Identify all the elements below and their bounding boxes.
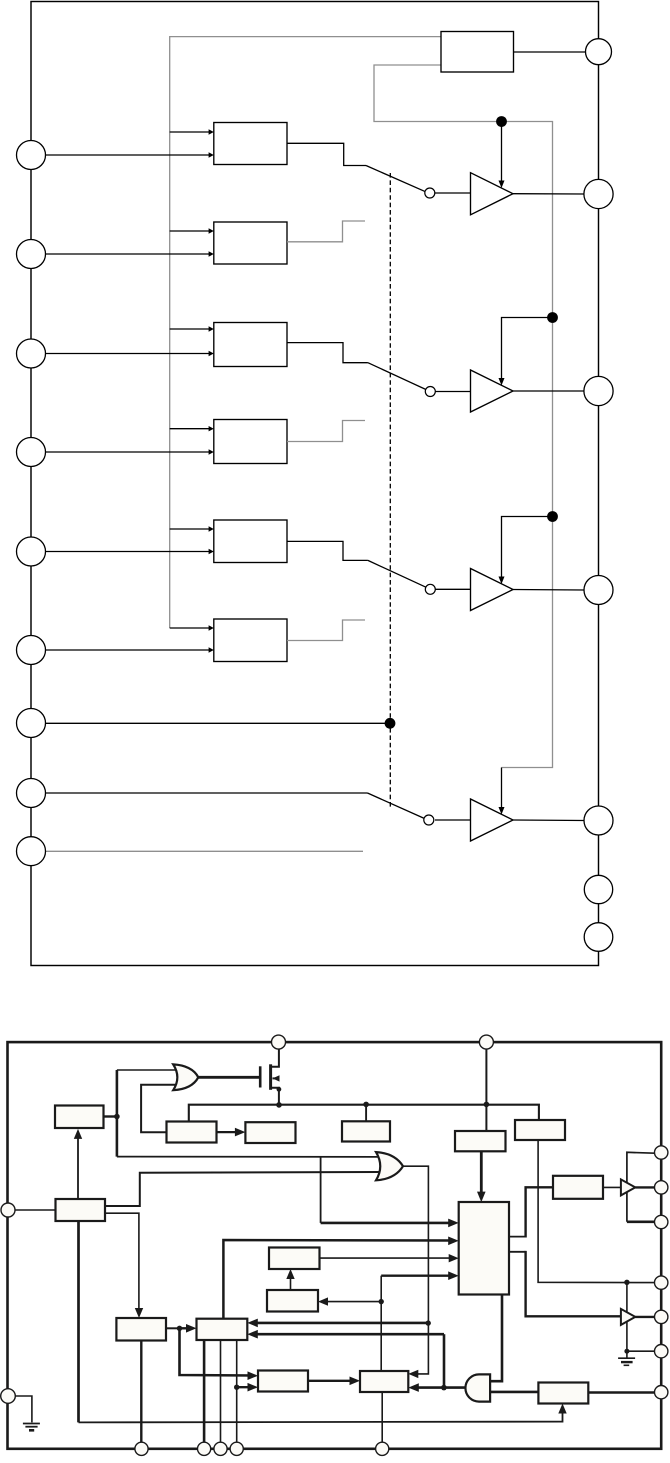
- wire bus arrow into U4: [170, 428, 210, 430]
- junction dot on mid bus at Q1: [276, 1102, 282, 1108]
- buffer T2: [621, 1309, 635, 1325]
- block J (bias): [56, 1199, 106, 1221]
- wire pivot to B1: [435, 192, 471, 194]
- block N: [258, 1371, 308, 1392]
- block F: [455, 1131, 506, 1151]
- wire VCC rail from pin to MOSFET drain: [270, 1049, 279, 1067]
- junction node on dashed line: [385, 718, 396, 729]
- wire box O bottom to pin: [381, 1392, 383, 1442]
- pin right5: [655, 1310, 668, 1323]
- block H: [553, 1176, 603, 1199]
- pin right1: [655, 1146, 668, 1159]
- junction dot at ground node: [624, 1349, 629, 1354]
- block E: [342, 1121, 390, 1141]
- ground symbol left: [23, 1423, 40, 1425]
- wire box J top to box A (arrow up): [77, 1134, 79, 1200]
- pin top1: [272, 1035, 286, 1049]
- wire U5 output step: [287, 541, 368, 560]
- switch pivot circle S3: [425, 584, 435, 594]
- block C: [245, 1122, 295, 1143]
- wire comparator Q output2 stub: [509, 1251, 526, 1253]
- pin right7: [655, 1386, 668, 1399]
- wire bus arrow into U5: [170, 528, 210, 530]
- or-gate G1: [173, 1064, 198, 1090]
- block A (ref): [55, 1106, 104, 1129]
- wire box I to gate G3 input2: [490, 1391, 538, 1394]
- wire riser to box H: [526, 1187, 553, 1237]
- wire input pin to U5: [46, 551, 210, 553]
- wire control stub into B2: [502, 318, 553, 380]
- wire box J output2 down to box K: [105, 1213, 139, 1313]
- wire box O net to comparator Q input4: [381, 1274, 454, 1276]
- block G: [515, 1120, 565, 1140]
- pin OUT7 (right): [584, 923, 613, 952]
- wire pivot to B2: [435, 391, 471, 393]
- block U1 (input stage): [214, 123, 287, 165]
- IC outline (bottom diagram): [8, 1042, 662, 1449]
- wire T1 bracket to pin (bottom): [627, 1221, 655, 1224]
- wire T1 bracket to pins (top): [627, 1152, 655, 1222]
- transistor Q1 channel bar: [269, 1064, 272, 1090]
- wire U6 output step gray: [287, 620, 365, 641]
- wire arrow into box M: [322, 1301, 381, 1303]
- wire buffer T2 output to pin: [635, 1316, 654, 1318]
- pin left2: [1, 1389, 16, 1404]
- wire B1 output to pin: [513, 193, 584, 195]
- pin IN8 (left): [17, 779, 46, 808]
- wire node A to or-gate G2 input1: [117, 1156, 379, 1158]
- junction dot box K output: [177, 1326, 182, 1331]
- pin right6: [655, 1345, 668, 1358]
- wire bottom rail to box I (arrow up): [79, 1409, 563, 1423]
- pin OUT3 (right): [584, 376, 613, 405]
- switch pivot circle S4: [424, 815, 434, 825]
- switch blade S4: [368, 793, 425, 818]
- wire G1 input2 L-net to box B: [141, 1085, 176, 1133]
- transistor Q1 body arrow: [273, 1077, 279, 1079]
- wire node A vertical (box A output net): [116, 1070, 119, 1157]
- junction dot D1: [496, 116, 507, 127]
- wire mid bus to box E top: [365, 1104, 367, 1121]
- wire U1 output step: [287, 143, 366, 165]
- pin IN5 (left): [17, 537, 46, 566]
- wire or-gate G2 output down the middle: [403, 1166, 429, 1374]
- wire input pin to U3: [46, 353, 210, 355]
- block O: [360, 1371, 408, 1392]
- wire left pin1 to box J: [16, 1209, 56, 1211]
- block I: [538, 1383, 588, 1404]
- wire box L bottom to pin v3: [236, 1340, 238, 1442]
- pin IN2 (left): [17, 240, 46, 269]
- wire drop to buffer T2: [526, 1251, 621, 1316]
- IC outline (top diagram): [31, 2, 599, 966]
- wire box I output to pin: [588, 1391, 654, 1393]
- pin IN3 (left): [17, 339, 46, 368]
- wire box L top to comparator Q input2: [223, 1240, 454, 1319]
- wire box J bottom rail down: [77, 1221, 80, 1422]
- wire B4 output to pin: [513, 819, 584, 822]
- transistor Q1 gate bar: [259, 1066, 262, 1087]
- junction dot D2: [547, 312, 558, 323]
- block L (logic): [197, 1319, 248, 1340]
- pin right2: [655, 1181, 668, 1194]
- or-gate G1 output to Q1 gate: [198, 1076, 261, 1079]
- pin IN9 (left): [17, 837, 46, 866]
- wire input pin to U6: [46, 649, 210, 651]
- pin IN6 (left): [17, 636, 46, 665]
- pin IN7 (left): [17, 709, 46, 738]
- wire box H to buffer T1: [603, 1186, 621, 1188]
- wire U0 output to pin: [514, 51, 586, 53]
- wire B3 output to pin: [513, 589, 584, 592]
- buffer driver B2: [471, 370, 514, 412]
- wire bus arrow into U1: [170, 131, 210, 133]
- wire U4 output step gray: [287, 421, 365, 442]
- wire pivot to B3: [435, 588, 471, 590]
- pin left1: [1, 1203, 15, 1217]
- wire U2 output step gray: [287, 221, 365, 242]
- wire control arrow into B1: [501, 122, 503, 183]
- wire G3 output to box O input2: [413, 1386, 444, 1389]
- junction dot node A: [114, 1114, 120, 1120]
- wire comparator Q output1 stub: [509, 1236, 526, 1238]
- and-gate G3 (left facing): [465, 1374, 490, 1401]
- wire control stub into B3: [502, 517, 553, 579]
- wire input pin to U2: [46, 253, 210, 255]
- block U5 (input stage): [214, 520, 287, 563]
- pin OUT1 (right): [586, 39, 612, 65]
- pin bottom4: [230, 1442, 243, 1455]
- pin bottom3: [214, 1442, 227, 1455]
- wire bus arrow into U3: [170, 328, 210, 330]
- pin OUT2 (right): [584, 179, 613, 208]
- wire box N output to box O: [308, 1380, 356, 1382]
- wire control arrow into B4: [501, 768, 503, 809]
- pin right4: [655, 1276, 668, 1289]
- wire box B to box C (arrow): [217, 1131, 240, 1133]
- wire input pin to U4: [46, 451, 210, 453]
- block U6 (input stage): [214, 619, 287, 662]
- pin OUT5 (right): [584, 806, 613, 835]
- wire bus arrow into U2: [170, 230, 210, 232]
- buffer driver B3: [471, 569, 514, 611]
- comparator Q (control logic): [459, 1202, 509, 1295]
- wire box R output to comparator Q input3: [320, 1257, 455, 1259]
- junction dot box O net: [379, 1299, 384, 1304]
- wire arrow into box L from box K: [180, 1327, 193, 1329]
- junction dot Q1 source: [277, 1087, 282, 1092]
- wire G3 output from gate: [444, 1386, 468, 1389]
- wire box M top to box R (arrow up): [290, 1274, 292, 1291]
- dashed mode-select line: [389, 173, 391, 808]
- wire buffer T1 output to pin: [635, 1186, 654, 1188]
- wire pin9 gray: [46, 850, 364, 852]
- buffer driver B1: [471, 173, 514, 215]
- pin top2: [479, 1035, 493, 1049]
- block K: [116, 1318, 166, 1341]
- wire bus arrow into U6: [170, 627, 210, 629]
- switch pivot circle S1: [425, 188, 435, 198]
- junction dot D3: [547, 511, 558, 522]
- wire top pin2 down through mid bus to box F: [485, 1049, 487, 1131]
- wire left pin2 to ground: [15, 1396, 32, 1422]
- junction dot on v3: [234, 1385, 239, 1390]
- pin OUT6 (right): [584, 875, 612, 903]
- wire box L input2 from gate G3 net: [252, 1333, 444, 1336]
- switch blade S2: [368, 363, 426, 390]
- transistor Q1 source wire: [270, 1088, 279, 1105]
- block U2 (input stage): [214, 222, 287, 264]
- wire box L bottom to pin v1: [203, 1340, 206, 1442]
- block M: [267, 1290, 318, 1312]
- wire box K net down to box N input1: [180, 1328, 254, 1375]
- pin IN1 (left): [17, 141, 46, 170]
- pin bottom5: [376, 1442, 389, 1455]
- block U4 (input stage): [214, 420, 287, 464]
- wire box F to comparator Q (arrow down): [480, 1151, 483, 1196]
- wire input pin to U1: [46, 154, 210, 156]
- wire U3 output step: [287, 343, 368, 363]
- pin IN4 (left): [17, 438, 46, 467]
- wire box O net vertical: [380, 1276, 382, 1371]
- junction dot on mid bus at box F: [484, 1102, 490, 1108]
- wire box G down to pin net: [538, 1140, 655, 1283]
- switch blade S1: [366, 166, 426, 192]
- wire box A output: [104, 1115, 117, 1117]
- wire reference net down to ground: [626, 1282, 628, 1357]
- wire pin7 to node: [46, 722, 391, 724]
- wire ground node to pin: [627, 1350, 655, 1352]
- wire gray control bus vertical: [170, 37, 441, 628]
- buffer driver B4: [471, 799, 514, 841]
- wire branch down to comparator Q input1: [320, 1157, 322, 1223]
- wire box J output1 step up to G2 input2: [105, 1172, 379, 1206]
- wire gate G3 output riser: [443, 1334, 446, 1387]
- wire box K output: [166, 1327, 180, 1329]
- junction dot on mid bus at box E: [363, 1102, 369, 1108]
- wire G2 net arrow into box L input1: [252, 1322, 428, 1325]
- pin bottom2: [198, 1442, 211, 1455]
- junction dot on reference net: [624, 1280, 629, 1285]
- wire pin8 input: [46, 792, 368, 794]
- block B: [167, 1122, 217, 1143]
- junction dot G2 net to box L: [426, 1320, 431, 1325]
- wire box L bottom to pin v2: [220, 1340, 222, 1442]
- wire v3 arrow into box N input2: [237, 1386, 254, 1388]
- pin bottom1: [135, 1442, 148, 1455]
- switch pivot circle S2: [425, 387, 435, 397]
- junction dot G3 output: [441, 1385, 447, 1391]
- wire comparator Q bottom to gate G3 input1: [490, 1295, 502, 1382]
- switch blade S3: [368, 560, 426, 587]
- wire mid bus (current sense rail): [189, 1105, 539, 1122]
- wire box K bottom to pin: [140, 1341, 142, 1443]
- wire gray feedback net to right bus: [374, 65, 553, 768]
- pin right3: [655, 1215, 668, 1228]
- block U3 (input stage): [214, 323, 287, 367]
- wire B2 output to pin: [513, 390, 584, 392]
- or-gate G2: [376, 1152, 403, 1180]
- ground symbol right: [618, 1357, 635, 1359]
- buffer T1: [621, 1179, 635, 1195]
- block U0 (oscillator): [441, 32, 514, 73]
- wire G1 input1 from node A: [117, 1069, 177, 1071]
- wire pivot to B4: [435, 819, 471, 821]
- pin OUT4 (right): [584, 576, 613, 605]
- block R: [269, 1248, 320, 1270]
